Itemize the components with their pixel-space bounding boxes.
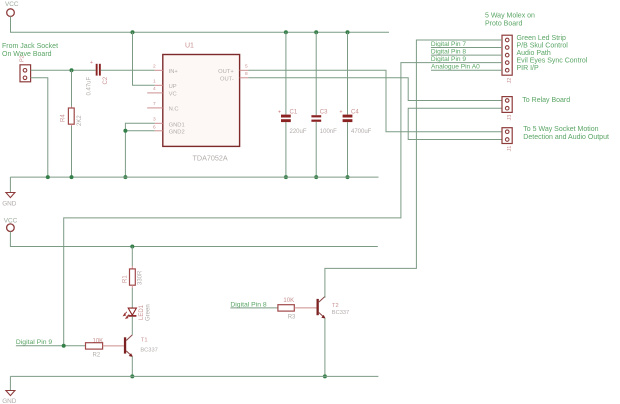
svg-text:From Jack Socket: From Jack Socket [2,43,58,50]
wire VCC rail top [11,16,390,32]
wire R4 to ground rail [71,126,73,177]
svg-text:5: 5 [245,64,248,70]
junction rail-UP pin [131,30,135,34]
op-amp U1 TDA7052A body [163,43,240,163]
svg-text:R3: R3 [288,315,296,321]
wire R3 to T2 base [294,307,316,309]
resistor R2 [86,338,104,358]
svg-text:Digital Pin 9: Digital Pin 9 [16,339,52,346]
svg-text:PIR I/P: PIR I/P [517,65,540,72]
label Digital Pin 7 [431,41,502,48]
svg-text:C3: C3 [320,110,328,116]
label Digital Pin 9 + wire J2 pin4 [64,56,502,346]
wire rail to C1 [285,32,287,114]
wire bottom ground rail [10,375,378,377]
connector J3 [502,97,513,121]
wire P2 pin1 to C2 [31,69,96,71]
svg-text:330R: 330R [138,270,144,285]
pin 4 VC [147,86,176,97]
svg-text:C4: C4 [351,110,359,116]
svg-text:5 Way Molex on: 5 Way Molex on [485,12,535,19]
capacitor C4 [340,110,372,135]
svg-text:C1: C1 [290,110,298,116]
wire rail to C3 [315,32,317,115]
transistor T1 BC337 [124,335,158,357]
label Digital Pin 8 [431,49,502,56]
wire R1 to LED1 [131,288,133,308]
pin 1 UP [153,79,177,90]
wire J3 pin2 to J1 pin2 [408,108,502,139]
svg-text:Green: Green [146,304,152,321]
wire C3 to ground rail [315,122,317,177]
capacitor C2 [87,60,110,96]
wire OUT- to J3 pin1 [248,78,502,101]
svg-text:4: 4 [153,86,156,92]
wire J2 pin1 (Green Led Strip) down to T2 collector [325,40,502,298]
svg-text:J1: J1 [507,146,513,152]
svg-text:2: 2 [153,64,156,70]
svg-text:BC337: BC337 [140,348,157,354]
svg-text:P/B Skul Control: P/B Skul Control [517,42,569,49]
junction C3 ground [314,175,318,179]
connector J2 [502,35,513,83]
pin 5 OUT+ [218,64,248,75]
svg-text:Digital Pin 9: Digital Pin 9 [431,56,467,63]
svg-text:VC: VC [169,91,177,97]
junction rail-C3 [314,30,318,34]
svg-text:Green Led Strip: Green Led Strip [517,35,567,42]
svg-text:UP: UP [169,84,177,90]
svg-text:8: 8 [245,71,248,77]
svg-text:Digital Pin 7: Digital Pin 7 [431,41,467,48]
wire C4 to ground rail [347,122,349,177]
svg-text:220uF: 220uF [290,129,307,135]
svg-text:10K: 10K [283,298,294,304]
svg-text:Proto Board: Proto Board [485,20,522,27]
label Analogue Pin A0 [431,64,502,71]
junction GND rail [123,175,127,179]
note From Jack Socket [2,43,58,58]
wire C2 to IN+ [101,69,155,71]
svg-text:1: 1 [153,79,156,85]
label Digital Pin 8 (T2 base) [230,301,278,308]
wire T2 emitter to ground rail [324,318,326,376]
pin 8 OUT- [220,71,248,82]
svg-text:BC337: BC337 [332,310,349,316]
svg-text:U1: U1 [185,43,194,50]
svg-text:OUT+: OUT+ [218,69,234,75]
svg-text:OUT-: OUT- [220,76,234,82]
junction rail-C1 [284,30,288,34]
svg-text:J3: J3 [507,115,513,121]
svg-text:T1: T1 [141,338,148,344]
svg-text:10K: 10K [93,338,104,344]
wire input node down to R4 [71,70,73,106]
svg-text:GND2: GND2 [169,129,185,135]
wire P2 pin2 to ground rail [31,78,48,177]
svg-text:LED1: LED1 [139,304,145,320]
label Digital Pin 9 (T1 base) [16,339,86,346]
svg-text:Analogue Pin A0: Analogue Pin A0 [431,64,480,71]
resistor R3 [278,298,296,321]
svg-text:R2: R2 [93,353,101,359]
connector J1 [502,128,513,152]
pin 2 IN+ [153,64,178,75]
transistor T2 BC337 [317,297,350,319]
svg-text:TDA7052A: TDA7052A [193,154,228,163]
wire rail to UP pin [133,32,155,85]
svg-text:6: 6 [153,124,156,130]
svg-text:R4: R4 [61,114,67,122]
svg-text:GND: GND [2,398,17,404]
svg-text:R1: R1 [122,275,128,283]
junction input node [70,68,74,72]
svg-text:P2: P2 [20,55,26,62]
wire C1 to ground rail [285,122,287,177]
svg-text:7: 7 [153,101,156,107]
pin 6 GND2 [153,124,185,135]
svg-text:+: + [278,110,281,116]
svg-text:T2: T2 [332,303,339,309]
resistor R1 [122,266,143,288]
svg-text:0.47uF: 0.47uF [87,76,93,95]
junction T2 ground [323,374,327,378]
pin 3 GND1 [153,117,185,129]
pin 7 N.C [147,101,178,112]
svg-text:Evil Eyes Sync Control: Evil Eyes Sync Control [517,57,588,64]
note 5 Way Molex [485,12,535,27]
VCC symbol top-left [5,1,19,16]
capacitor C3 [311,110,337,135]
svg-text:Detection and Audio Output: Detection and Audio Output [523,134,609,141]
svg-text:To Relay Board: To Relay Board [522,97,570,104]
svg-text:100nF: 100nF [320,129,337,135]
svg-text:To 5 Way Socket Motion: To 5 Way Socket Motion [523,126,598,133]
ground symbol lower [2,376,17,404]
svg-text:VCC: VCC [4,217,18,224]
svg-text:2K2: 2K2 [77,115,83,126]
junction VCC2-R1 [130,245,134,249]
svg-text:On Wave Board: On Wave Board [2,51,52,58]
wire GND1/GND2 to ground rail [125,123,154,177]
junction rail-C4 [346,30,350,34]
wire VCC2 to R1 [131,247,133,267]
resistor R4 [61,107,84,127]
ground symbol upper [2,177,17,207]
svg-text:C2: C2 [103,76,109,84]
wire T2 collector stub [324,297,326,298]
wire ground rail [10,176,378,178]
junction P2 ground [46,175,50,179]
wire T1 emitter to ground rail [131,356,133,376]
junction C4 ground [346,175,350,179]
junction C1 ground [284,175,288,179]
capacitor C1 [278,110,307,135]
junction GND pins [123,129,127,133]
svg-text:GND1: GND1 [169,123,185,129]
svg-text:+: + [340,110,343,116]
wire VCC rail lower [10,232,377,247]
svg-text:3: 3 [153,117,156,123]
VCC symbol lower [4,217,18,231]
svg-text:N.C: N.C [169,106,179,112]
svg-text:+: + [90,60,93,66]
junction Digital Pin 9 [62,344,66,348]
junction T1 ground [130,374,134,378]
wire rail to C4 [347,32,349,114]
wire OUT+ to J1 pin1 [248,70,502,131]
note To 5 Way Socket [523,126,609,141]
svg-text:GND: GND [2,201,17,208]
svg-text:Digital Pin 8: Digital Pin 8 [431,49,467,56]
junction R4 ground [70,175,74,179]
svg-text:Digital Pin 8: Digital Pin 8 [230,301,266,308]
svg-text:J2: J2 [507,78,513,84]
svg-text:Audio Path: Audio Path [517,50,551,57]
svg-text:4700uF: 4700uF [351,129,372,135]
wire R2 to T1 base [103,345,124,347]
connector P2 [20,55,31,82]
wire LED1 to T1 collector [131,317,133,335]
LED LED1 Green [123,304,151,321]
svg-text:VCC: VCC [5,1,19,8]
svg-text:IN+: IN+ [169,69,179,75]
